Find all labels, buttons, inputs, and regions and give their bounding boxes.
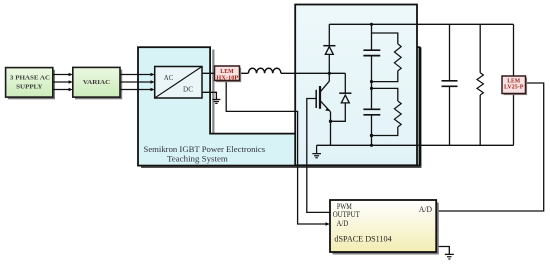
svg-text:LV25-P: LV25-P <box>504 84 524 91</box>
svg-text:3 PHASE AC: 3 PHASE AC <box>10 75 50 82</box>
svg-text:DC: DC <box>183 87 193 94</box>
svg-text:VARIAC: VARIAC <box>83 79 111 86</box>
svg-text:Semikron IGBT Power Electronic: Semikron IGBT Power Electronics <box>144 145 266 154</box>
svg-text:AC: AC <box>164 75 174 82</box>
svg-text:OUTPUT: OUTPUT <box>333 210 360 219</box>
svg-text:Teaching System: Teaching System <box>167 155 228 164</box>
svg-text:HX-10P: HX-10P <box>216 74 238 81</box>
svg-text:dSPACE DS1104: dSPACE DS1104 <box>334 235 392 244</box>
svg-text:SUPPLY: SUPPLY <box>16 84 43 91</box>
svg-text:A/D: A/D <box>419 205 432 214</box>
svg-text:A/D: A/D <box>337 219 349 228</box>
